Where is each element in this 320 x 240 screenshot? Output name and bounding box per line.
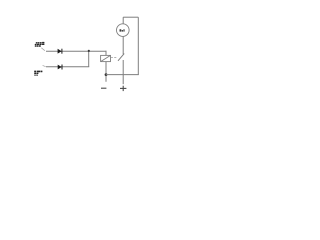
wire bus y=74.6 [106, 74, 139, 76]
wire upper input y=51 [46, 50, 107, 52]
diode D1 [58, 49, 62, 54]
wire lower input y=67 [46, 66, 89, 68]
junction dot node A [105, 73, 108, 76]
wire contact lower lead to plus terminal [122, 60, 124, 84]
terminal tick lower input [43, 65, 46, 66]
relay coil K1 [101, 55, 111, 61]
battery minus terminal [101, 87, 106, 89]
wire corner to relay coil top [105, 51, 107, 56]
junction dot node B [88, 50, 90, 52]
mechanical link dashed [111, 57, 118, 59]
wire relay coil bottom to minus terminal [105, 62, 107, 82]
motor M1 [117, 24, 130, 37]
node label VOLVO BOX (lower input, 3 lines) [34, 71, 42, 76]
relay contact arm [118, 54, 124, 61]
wire riser joining lower input to upper wire [88, 51, 90, 67]
wire right vertical x=138.3 [137, 17, 139, 74]
diode D2 [58, 65, 62, 70]
wire motor bottom to contact fixed terminal [122, 36, 124, 54]
wire top y=17.2 [123, 16, 138, 18]
battery plus terminal [120, 86, 126, 91]
node label COMBI BOX (upper input, 3 lines) [35, 42, 45, 47]
terminal tick upper input [41, 48, 45, 51]
wire motor top lead [122, 17, 124, 24]
